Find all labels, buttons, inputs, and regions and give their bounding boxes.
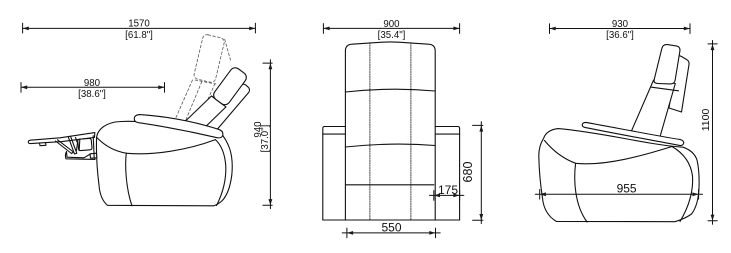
dim 955 arrows [540, 192, 699, 196]
seat front seam line [346, 184, 434, 186]
dashed upright backrest band [176, 78, 216, 121]
upright arm slab [582, 122, 683, 145]
backrest outline [345, 42, 435, 220]
dim 980 text [78, 78, 106, 100]
dim 1100 line [708, 41, 717, 225]
dim 1570 arrows [23, 27, 256, 31]
seat slab [134, 115, 223, 138]
solid reclined rear band [202, 82, 251, 137]
dim 1570 line [23, 23, 256, 33]
solid reclined front band [184, 96, 226, 134]
footrest small tab [40, 143, 47, 146]
footrest blade [28, 133, 95, 144]
chair body upright [539, 129, 699, 222]
upright back seam [652, 87, 679, 91]
body front seam [97, 138, 132, 206]
vertical seam right (dashed) [410, 43, 412, 220]
svg-text:550: 550 [381, 220, 401, 234]
dim 930 arrows [550, 27, 691, 31]
dim 940 arrows [269, 63, 273, 205]
dim 1100 arrows [711, 44, 715, 221]
dim 980 line [21, 83, 165, 93]
front bottom line [323, 219, 460, 221]
chair body (arm/base, side) [96, 121, 232, 206]
dim 940 text [253, 121, 271, 153]
upright body top seam [576, 147, 672, 164]
dim 1570 text [125, 19, 153, 41]
solid reclined headrest [211, 66, 248, 107]
dim 680 line [473, 122, 483, 224]
dim 955 line [535, 190, 702, 200]
svg-text:900: 900 [383, 19, 400, 30]
dim 980 arrows [21, 85, 165, 89]
footrest lower link [65, 152, 95, 160]
svg-text:[61.8"]: [61.8"] [125, 30, 153, 41]
svg-text:175: 175 [438, 183, 458, 197]
dim 175 arrows [434, 194, 460, 198]
footrest pivot link [76, 138, 80, 151]
svg-text:930: 930 [612, 19, 629, 30]
footrest scissor bar 2 [68, 136, 77, 154]
dim 900 arrows [323, 27, 459, 31]
dim 930 text [606, 19, 634, 41]
svg-text:[38.6"]: [38.6"] [78, 89, 106, 100]
left armrest pad line [323, 133, 346, 135]
upright crescent inner line [672, 147, 693, 222]
left armrest [323, 127, 346, 221]
dim 940 line [263, 60, 272, 209]
svg-text:680: 680 [461, 162, 475, 183]
right armrest [434, 127, 460, 221]
dim 900 text [378, 19, 406, 41]
dim 175 line [430, 191, 464, 201]
dim 550 line [342, 228, 440, 238]
upright headrest [654, 45, 680, 84]
upright rear panel [669, 56, 689, 112]
dim 930 line [550, 24, 691, 34]
svg-text:1570: 1570 [128, 19, 150, 30]
svg-text:955: 955 [617, 182, 637, 196]
body top inner seam [126, 140, 215, 154]
dim 900 line [323, 24, 459, 34]
vertical seam left (dashed) [369, 43, 371, 220]
footrest pocket bracket [78, 138, 92, 150]
svg-text:[36.6"]: [36.6"] [606, 30, 634, 41]
svg-text:980: 980 [84, 78, 101, 89]
upright front band [630, 80, 676, 139]
upright body front seam [545, 141, 588, 223]
dim 550 arrows [347, 231, 436, 235]
back seam arc [345, 89, 435, 92]
dim 680 arrows [479, 125, 483, 220]
footrest scissor bar 1 [56, 140, 74, 154]
svg-text:1100: 1100 [700, 109, 712, 132]
svg-text:[35.4"]: [35.4"] [378, 30, 406, 41]
footrest body bracket [90, 136, 97, 158]
svg-text:[37.0"]: [37.0"] [260, 125, 271, 153]
crescent inner line [215, 140, 225, 206]
right armrest pad line [434, 133, 460, 135]
dashed upright headrest [193, 34, 230, 84]
seat seam arc [345, 144, 435, 147]
